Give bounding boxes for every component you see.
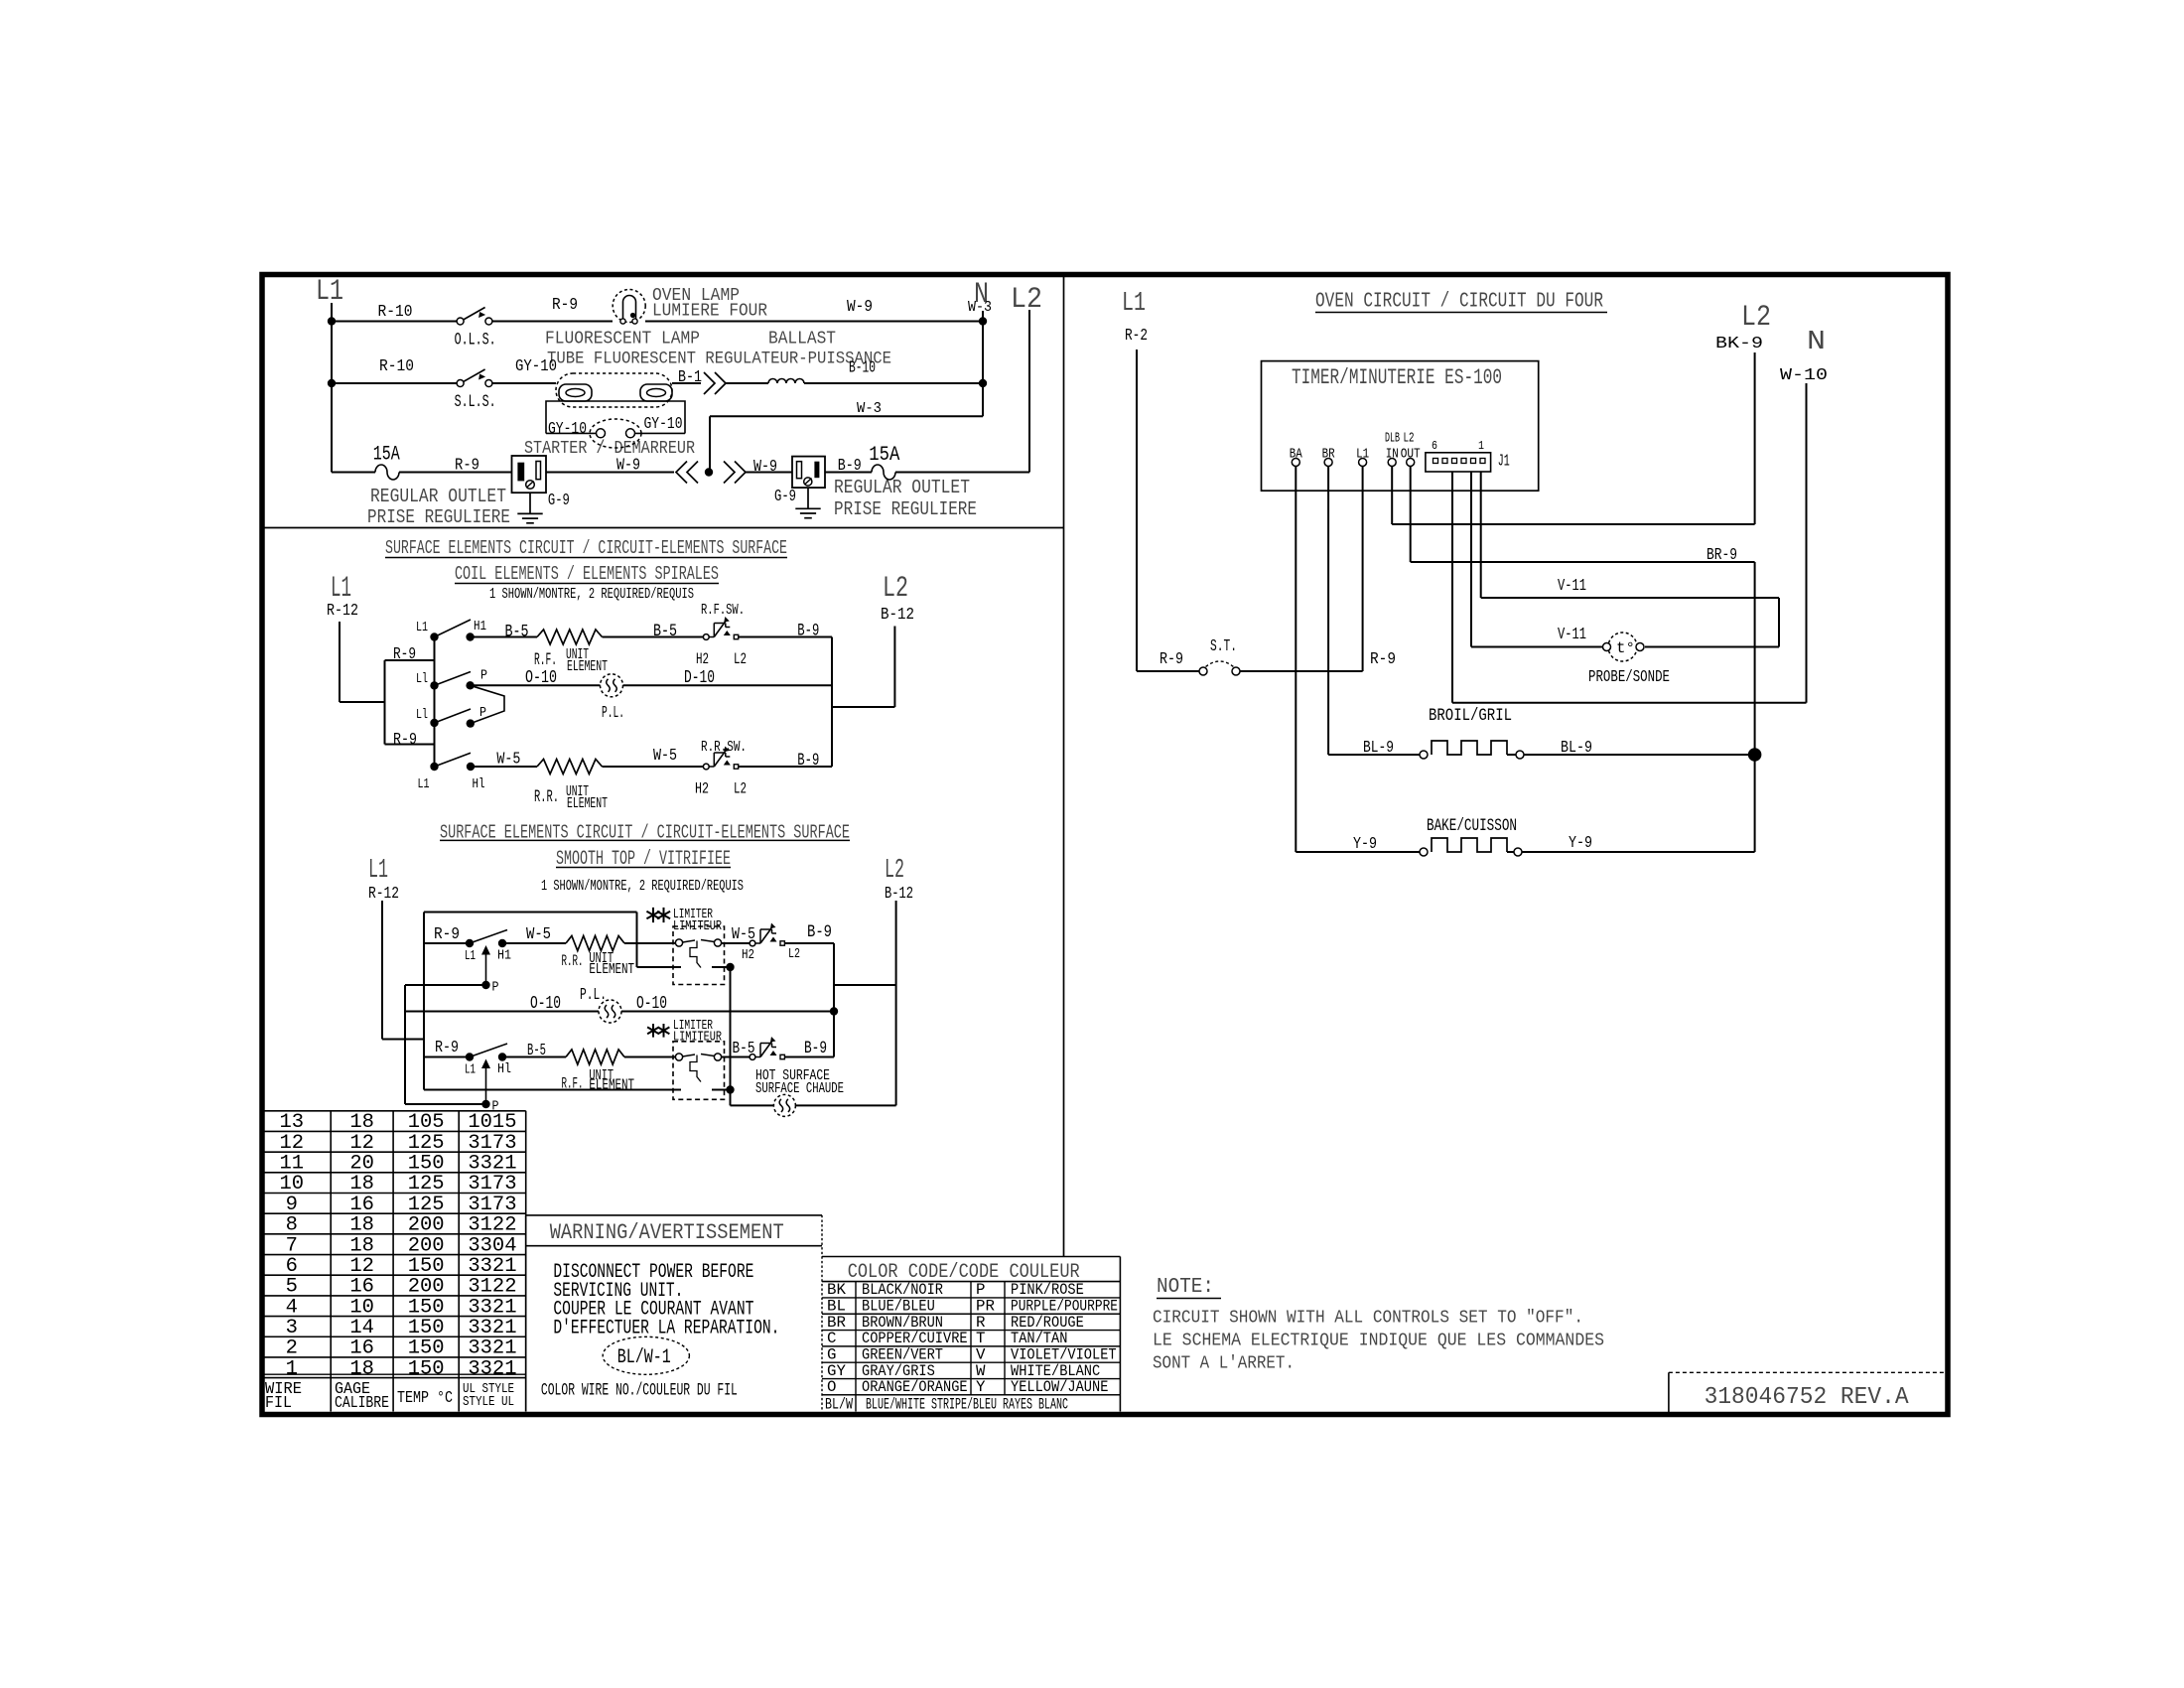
svg-text:R-12: R-12	[368, 884, 399, 903]
svg-text:P.L.: P.L.	[580, 985, 607, 1004]
svg-text:1: 1	[286, 1357, 298, 1380]
svg-text:R-9: R-9	[455, 456, 479, 475]
svg-text:R-9: R-9	[435, 1038, 459, 1056]
svg-text:3321: 3321	[468, 1255, 516, 1278]
svg-text:C: C	[827, 1330, 836, 1347]
svg-text:W-9: W-9	[847, 297, 873, 316]
svg-text:H1: H1	[497, 948, 511, 964]
svg-text:B-5: B-5	[653, 623, 677, 641]
svg-text:150: 150	[408, 1296, 445, 1319]
svg-text:L2: L2	[1011, 283, 1042, 316]
svg-text:LE SCHEMA ELECTRIQUE INDIQUE Q: LE SCHEMA ELECTRIQUE INDIQUE QUE LES COM…	[1153, 1332, 1604, 1351]
svg-text:W-9: W-9	[753, 457, 777, 476]
svg-text:150: 150	[408, 1337, 445, 1360]
svg-text:H1: H1	[474, 619, 486, 634]
svg-text:SONT A L'ARRET.: SONT A L'ARRET.	[1153, 1354, 1295, 1374]
svg-text:Hl: Hl	[473, 776, 485, 792]
svg-text:125: 125	[408, 1173, 445, 1196]
svg-text:V-11: V-11	[1558, 625, 1586, 643]
svg-text:200: 200	[408, 1214, 445, 1237]
svg-text:FLUORESCENT LAMP: FLUORESCENT LAMP	[545, 330, 700, 350]
svg-text:VIOLET/VIOLET: VIOLET/VIOLET	[1011, 1345, 1117, 1363]
svg-text:150: 150	[408, 1357, 445, 1380]
svg-text:IN: IN	[1386, 447, 1399, 463]
svg-text:R-9: R-9	[393, 644, 416, 663]
svg-text:12: 12	[279, 1132, 304, 1155]
svg-text:REGULAR OUTLET: REGULAR OUTLET	[370, 486, 506, 507]
svg-text:LIMITEUR: LIMITEUR	[673, 919, 722, 934]
svg-text:NOTE:: NOTE:	[1157, 1275, 1214, 1299]
svg-text:LUMIERE FOUR: LUMIERE FOUR	[652, 302, 767, 322]
svg-text:D'EFFECTUER LA REPARATION.: D'EFFECTUER LA REPARATION.	[553, 1318, 779, 1340]
svg-text:L2: L2	[788, 946, 800, 962]
svg-text:BROWN/BRUN: BROWN/BRUN	[862, 1314, 943, 1332]
svg-text:OVEN CIRCUIT / CIRCUIT DU FOUR: OVEN CIRCUIT / CIRCUIT DU FOUR	[1315, 290, 1603, 314]
svg-text:L1: L1	[418, 776, 430, 792]
svg-text:18: 18	[349, 1111, 374, 1134]
svg-text:12: 12	[349, 1255, 374, 1278]
svg-text:3173: 3173	[468, 1194, 516, 1216]
svg-text:3321: 3321	[468, 1153, 516, 1176]
svg-text:W-5: W-5	[526, 924, 551, 943]
svg-text:L1: L1	[416, 620, 428, 635]
svg-text:3321: 3321	[468, 1296, 516, 1319]
svg-text:T: T	[976, 1330, 985, 1347]
svg-text:O-10: O-10	[530, 994, 561, 1014]
svg-text:PINK/ROSE: PINK/ROSE	[1011, 1281, 1084, 1299]
svg-text:COIL ELEMENTS / ELEMENTS SPIRA: COIL ELEMENTS / ELEMENTS SPIRALES	[455, 563, 719, 585]
svg-text:3321: 3321	[468, 1357, 516, 1380]
svg-text:ELEMENT: ELEMENT	[567, 795, 608, 812]
svg-text:Ll: Ll	[416, 671, 428, 687]
svg-text:t°: t°	[1616, 639, 1635, 657]
svg-text:FIL: FIL	[265, 1393, 292, 1412]
svg-text:W-5: W-5	[653, 746, 677, 765]
svg-text:O-10: O-10	[636, 994, 667, 1014]
svg-text:R-10: R-10	[379, 356, 414, 375]
svg-text:R-9: R-9	[434, 924, 460, 943]
svg-text:B-5: B-5	[527, 1041, 546, 1059]
svg-text:R-9: R-9	[393, 730, 417, 749]
svg-text:B-12: B-12	[885, 884, 913, 903]
svg-text:R-9: R-9	[1160, 649, 1183, 668]
svg-text:TEMP °C: TEMP °C	[397, 1388, 453, 1407]
svg-text:W-5: W-5	[496, 750, 520, 769]
svg-text:8: 8	[286, 1214, 298, 1237]
svg-text:BR: BR	[827, 1314, 846, 1332]
svg-text:200: 200	[408, 1276, 445, 1299]
svg-text:3321: 3321	[468, 1337, 516, 1360]
svg-text:BA: BA	[1290, 447, 1303, 463]
svg-text:L1: L1	[1356, 447, 1369, 463]
svg-text:L2: L2	[734, 780, 747, 798]
svg-text:PRISE REGULIERE: PRISE REGULIERE	[834, 498, 977, 520]
svg-text:12: 12	[349, 1132, 374, 1155]
svg-text:3173: 3173	[468, 1132, 516, 1155]
svg-text:L1: L1	[1122, 289, 1146, 319]
svg-text:11: 11	[279, 1153, 304, 1176]
svg-text:W: W	[976, 1362, 986, 1380]
svg-text:Ll: Ll	[416, 707, 428, 723]
svg-text:BROIL/GRIL: BROIL/GRIL	[1429, 707, 1512, 726]
svg-text:CALIBRE: CALIBRE	[335, 1393, 389, 1412]
svg-text:W-3: W-3	[857, 400, 882, 417]
svg-text:STYLE UL: STYLE UL	[463, 1394, 514, 1410]
svg-text:PURPLE/POURPRE: PURPLE/POURPRE	[1011, 1298, 1118, 1316]
svg-text:R-9: R-9	[1370, 649, 1396, 668]
svg-text:R-10: R-10	[378, 302, 413, 321]
svg-text:R.R.: R.R.	[534, 788, 559, 807]
svg-text:B-1: B-1	[678, 367, 702, 386]
svg-text:3321: 3321	[468, 1317, 516, 1339]
svg-text:10: 10	[349, 1296, 374, 1319]
svg-text:R.F.SW.: R.F.SW.	[701, 602, 745, 619]
svg-text:TUBE FLUORESCENT REGULATEUR-PU: TUBE FLUORESCENT REGULATEUR-PUISSANCE	[547, 351, 891, 369]
svg-text:15A: 15A	[869, 444, 900, 467]
svg-text:B-10: B-10	[849, 358, 876, 377]
svg-text:WHITE/BLANC: WHITE/BLANC	[1011, 1362, 1100, 1380]
svg-text:B-9: B-9	[838, 456, 862, 475]
svg-text:150: 150	[408, 1255, 445, 1278]
svg-text:BLACK/NOIR: BLACK/NOIR	[862, 1281, 943, 1299]
svg-text:18: 18	[349, 1214, 374, 1237]
svg-text:O.L.S.: O.L.S.	[455, 332, 496, 351]
svg-text:B-9: B-9	[804, 1040, 827, 1058]
svg-text:BL: BL	[827, 1298, 846, 1316]
svg-text:ORANGE/ORANGE: ORANGE/ORANGE	[862, 1378, 968, 1396]
svg-text:B-9: B-9	[797, 752, 819, 771]
svg-text:G-9: G-9	[774, 487, 796, 505]
svg-text:PRISE REGULIERE: PRISE REGULIERE	[367, 506, 510, 528]
svg-text:20: 20	[349, 1153, 374, 1176]
svg-text:5: 5	[286, 1276, 298, 1299]
svg-text:B-9: B-9	[807, 923, 832, 942]
svg-text:GY-10: GY-10	[644, 414, 683, 433]
svg-text:B-5: B-5	[505, 624, 529, 642]
svg-text:H2: H2	[696, 650, 709, 668]
svg-text:BR: BR	[1322, 447, 1335, 463]
svg-text:R-12: R-12	[327, 601, 358, 620]
svg-text:L1: L1	[465, 1062, 476, 1078]
svg-text:R-2: R-2	[1125, 326, 1148, 345]
svg-text:BK: BK	[827, 1281, 846, 1299]
svg-text:L2: L2	[883, 572, 908, 605]
svg-text:TAN/TAN: TAN/TAN	[1011, 1330, 1067, 1347]
svg-text:ELEMENT: ELEMENT	[567, 658, 608, 675]
svg-text:L2: L2	[1741, 301, 1771, 335]
svg-text:P: P	[492, 980, 499, 996]
svg-text:TIMER/MINUTERIE ES-100: TIMER/MINUTERIE ES-100	[1292, 365, 1502, 390]
svg-text:L1: L1	[368, 856, 388, 886]
svg-text:125: 125	[408, 1132, 445, 1155]
svg-text:125: 125	[408, 1194, 445, 1216]
svg-text:7: 7	[286, 1234, 298, 1257]
svg-text:BK-9: BK-9	[1715, 334, 1763, 352]
svg-text:GY-10: GY-10	[548, 419, 587, 438]
svg-text:318046752 REV.A: 318046752 REV.A	[1705, 1384, 1910, 1411]
svg-text:G-9: G-9	[548, 491, 570, 509]
svg-text:B-12: B-12	[881, 605, 914, 624]
svg-text:1: 1	[1478, 439, 1484, 453]
svg-text:3122: 3122	[468, 1276, 516, 1299]
svg-text:ELEMENT: ELEMENT	[589, 1078, 634, 1094]
svg-text:PROBE/SONDE: PROBE/SONDE	[1588, 667, 1670, 686]
svg-text:STARTER / DEMARREUR: STARTER / DEMARREUR	[524, 439, 695, 459]
svg-text:L2: L2	[734, 650, 747, 668]
svg-text:W-9: W-9	[616, 456, 640, 475]
svg-text:V: V	[976, 1345, 986, 1363]
svg-text:16: 16	[349, 1194, 374, 1216]
svg-text:13: 13	[279, 1111, 304, 1134]
svg-text:BALLAST: BALLAST	[768, 330, 836, 350]
svg-text:Y: Y	[976, 1378, 986, 1396]
svg-text:WARNING/AVERTISSEMENT: WARNING/AVERTISSEMENT	[550, 1220, 784, 1245]
svg-text:BLUE/BLEU: BLUE/BLEU	[862, 1298, 935, 1316]
svg-text:BL-9: BL-9	[1363, 738, 1394, 757]
svg-text:P: P	[480, 668, 487, 684]
svg-text:BL-9: BL-9	[1561, 738, 1592, 757]
svg-text:DLB: DLB	[1385, 431, 1400, 447]
svg-text:R: R	[976, 1314, 986, 1332]
svg-text:S.T.: S.T.	[1210, 636, 1237, 655]
svg-text:COLOR WIRE NO./COULEUR DU FIL: COLOR WIRE NO./COULEUR DU FIL	[541, 1382, 738, 1401]
svg-text:L2: L2	[885, 856, 904, 886]
svg-text:15A: 15A	[373, 444, 401, 467]
svg-text:Y-9: Y-9	[1569, 833, 1592, 852]
svg-text:6: 6	[1432, 439, 1437, 453]
svg-text:R-9: R-9	[552, 295, 578, 314]
svg-text:3173: 3173	[468, 1173, 516, 1196]
svg-text:B-9: B-9	[797, 623, 819, 641]
svg-text:J1: J1	[1498, 452, 1510, 471]
svg-text:H2: H2	[695, 780, 709, 798]
svg-text:10: 10	[279, 1173, 304, 1196]
svg-text:105: 105	[408, 1111, 445, 1134]
svg-text:150: 150	[408, 1153, 445, 1176]
svg-text:6: 6	[286, 1255, 298, 1278]
svg-text:4: 4	[286, 1296, 298, 1319]
svg-text:L1: L1	[465, 948, 476, 964]
svg-text:GY: GY	[827, 1362, 846, 1380]
svg-text:BL/W: BL/W	[825, 1395, 853, 1413]
svg-text:SURFACE ELEMENTS CIRCUIT / CIR: SURFACE ELEMENTS CIRCUIT / CIRCUIT-ELEME…	[385, 537, 787, 559]
svg-text:CIRCUIT SHOWN WITH ALL CONTROL: CIRCUIT SHOWN WITH ALL CONTROLS SET TO "…	[1153, 1309, 1583, 1329]
svg-text:BL/W-1: BL/W-1	[617, 1346, 671, 1369]
svg-text:R.R.: R.R.	[562, 952, 584, 970]
svg-text:S.L.S.: S.L.S.	[455, 393, 496, 412]
svg-text:OUT: OUT	[1401, 447, 1421, 463]
svg-text:BLUE/WHITE STRIPE/BLEU RAYES B: BLUE/WHITE STRIPE/BLEU RAYES BLANC	[866, 1395, 1068, 1413]
svg-text:16: 16	[349, 1276, 374, 1299]
svg-text:18: 18	[349, 1357, 374, 1380]
svg-text:3: 3	[286, 1317, 298, 1339]
svg-text:H2: H2	[742, 947, 754, 963]
svg-text:L1: L1	[316, 275, 343, 308]
svg-text:200: 200	[408, 1234, 445, 1257]
svg-text:16: 16	[349, 1337, 374, 1360]
svg-text:14: 14	[349, 1317, 374, 1339]
svg-text:N: N	[1807, 328, 1826, 357]
svg-text:G: G	[827, 1345, 836, 1363]
svg-text:REGULAR OUTLET: REGULAR OUTLET	[834, 477, 970, 498]
svg-text:BR-9: BR-9	[1706, 545, 1737, 564]
svg-text:D-10: D-10	[684, 668, 715, 688]
svg-text:ELEMENT: ELEMENT	[589, 962, 634, 978]
svg-text:3304: 3304	[468, 1234, 516, 1257]
svg-text:W-3: W-3	[968, 299, 992, 316]
svg-text:18: 18	[349, 1173, 374, 1196]
svg-text:2: 2	[286, 1337, 298, 1360]
svg-text:SURFACE CHAUDE: SURFACE CHAUDE	[755, 1080, 844, 1097]
svg-text:Y-9: Y-9	[1353, 834, 1377, 853]
svg-text:Hl: Hl	[497, 1061, 511, 1077]
svg-text:COPPER/CUIVRE: COPPER/CUIVRE	[862, 1330, 968, 1347]
svg-text:V-11: V-11	[1558, 576, 1586, 595]
svg-text:PR: PR	[976, 1298, 995, 1316]
svg-text:P: P	[976, 1281, 985, 1299]
svg-text:GREEN/VERT: GREEN/VERT	[862, 1345, 943, 1363]
svg-text:P.L.: P.L.	[602, 703, 624, 722]
svg-text:O: O	[827, 1378, 836, 1396]
svg-text:GRAY/GRIS: GRAY/GRIS	[862, 1362, 935, 1380]
svg-text:L2: L2	[1404, 431, 1415, 447]
svg-text:9: 9	[286, 1194, 298, 1216]
svg-text:150: 150	[408, 1317, 445, 1339]
svg-text:1 SHOWN/MONTRE, 2 REQUIRED/REQ: 1 SHOWN/MONTRE, 2 REQUIRED/REQUIS	[489, 586, 694, 603]
svg-text:BAKE/CUISSON: BAKE/CUISSON	[1427, 817, 1517, 836]
svg-text:W-10: W-10	[1780, 365, 1828, 384]
svg-text:1 SHOWN/MONTRE, 2 REQUIRED/REQ: 1 SHOWN/MONTRE, 2 REQUIRED/REQUIS	[541, 878, 744, 895]
svg-text:18: 18	[349, 1234, 374, 1257]
svg-text:YELLOW/JAUNE: YELLOW/JAUNE	[1011, 1378, 1108, 1396]
svg-text:LIMITEUR: LIMITEUR	[673, 1031, 722, 1046]
svg-text:1015: 1015	[468, 1111, 516, 1134]
svg-text:RED/ROUGE: RED/ROUGE	[1011, 1314, 1084, 1332]
svg-text:O-10: O-10	[525, 668, 557, 688]
svg-text:3122: 3122	[468, 1214, 516, 1237]
